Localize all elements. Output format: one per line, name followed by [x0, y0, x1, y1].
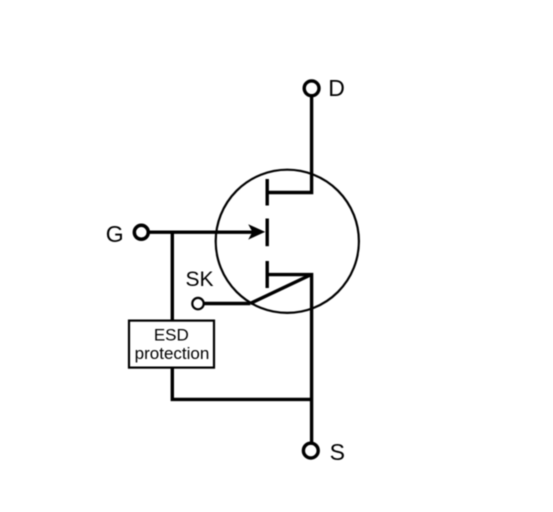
svg-text:ESD: ESD	[154, 325, 189, 344]
svg-text:D: D	[328, 75, 345, 101]
transistor Q1 drain channel dash (top)	[266, 179, 269, 206]
wire source: from dash right then down to terminal S	[266, 275, 312, 443]
svg-text:protection: protection	[135, 344, 210, 363]
wire source-kelvin diagonal to source corner	[250, 275, 311, 304]
wire gate branch down to ESD protection box	[171, 232, 174, 321]
terminal G pin circle	[134, 225, 148, 239]
wire drain: from dash up-right to terminal D	[266, 97, 312, 193]
svg-text:G: G	[106, 221, 124, 247]
terminal D pin circle	[304, 81, 319, 96]
wire from terminal SK to diagonal junction	[204, 302, 251, 305]
transistor Q1 body circle	[216, 170, 359, 313]
svg-text:SK: SK	[186, 268, 214, 291]
terminal S pin circle	[303, 443, 318, 458]
svg-text:S: S	[330, 439, 345, 465]
terminal SK pin circle	[192, 298, 203, 309]
transistor Q1 source channel dash (bottom)	[266, 261, 269, 288]
wire gate: from terminal G to arrowhead	[150, 230, 253, 233]
transistor Q1 gate channel dash (middle)	[266, 219, 269, 247]
wire from ESD protection box down and right to source net	[172, 368, 311, 400]
gate arrowhead into channel	[248, 224, 265, 239]
ESD protection block U1	[129, 321, 214, 368]
